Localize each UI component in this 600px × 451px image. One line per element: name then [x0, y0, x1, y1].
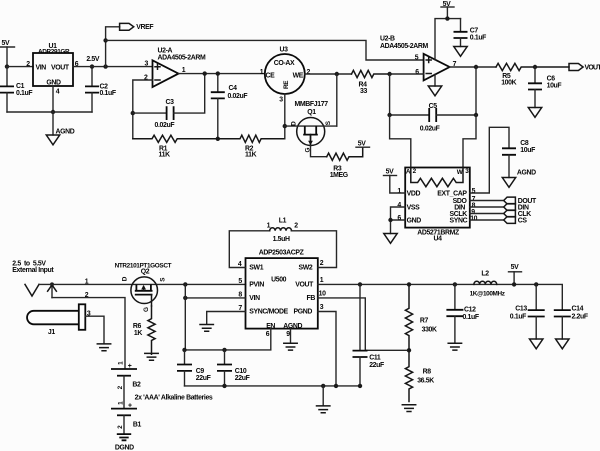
svg-text:1K: 1K	[134, 330, 142, 337]
svg-text:6: 6	[415, 69, 419, 76]
svg-text:1K@100MHz: 1K@100MHz	[470, 291, 505, 298]
wire U1 GND lead	[52, 86, 54, 112]
node VIN junction	[5, 64, 9, 68]
flag VREF	[120, 23, 154, 31]
svg-text:SW1: SW1	[249, 265, 263, 272]
ground under C6	[528, 108, 541, 118]
label external input	[12, 260, 54, 274]
node C5 left junction	[387, 113, 391, 117]
inductor L1 1.5uH	[229, 218, 336, 268]
svg-text:3: 3	[145, 60, 149, 67]
svg-text:VIN: VIN	[36, 64, 47, 71]
svg-text:22uF: 22uF	[196, 375, 211, 382]
svg-text:0.1uF: 0.1uF	[100, 90, 116, 97]
capacitor C13 0.1uF	[510, 284, 545, 339]
node C10 top junction	[222, 348, 226, 352]
ground under U2-B	[428, 86, 441, 96]
svg-text:2.2uF: 2.2uF	[572, 313, 588, 320]
capacitor C12 0.1uF	[446, 284, 478, 343]
svg-text:PVIN: PVIN	[249, 282, 264, 289]
svg-text:330K: 330K	[422, 326, 437, 333]
5V tick at L2	[509, 264, 522, 284]
svg-text:C12: C12	[464, 307, 476, 314]
svg-text:33: 33	[360, 88, 367, 95]
node C13 tap	[534, 282, 538, 286]
svg-text:0.02uF: 0.02uF	[155, 122, 175, 129]
wire jack pin1 rail to PVIN	[39, 283, 246, 285]
5V supply tick top-left	[0, 40, 15, 67]
node rail tap	[103, 38, 107, 42]
regulator U500 ADP2503ACPZ	[238, 250, 326, 338]
node C11 bottom junction	[358, 384, 362, 388]
resistor R6 1K	[133, 306, 155, 354]
svg-text:VOUT: VOUT	[585, 64, 600, 71]
svg-text:5: 5	[415, 55, 419, 62]
svg-text:C13: C13	[515, 306, 527, 313]
ground under C13	[530, 339, 543, 349]
node output-C4 junction	[216, 71, 220, 75]
node jack tip junction	[50, 282, 54, 286]
svg-text:1MEG: 1MEG	[330, 172, 348, 179]
resistor R8 36.5K	[405, 350, 434, 401]
svg-text:VOUT: VOUT	[51, 64, 70, 71]
svg-text:0.02uF: 0.02uF	[420, 126, 440, 133]
wire U3 WE to node	[305, 73, 352, 75]
svg-text:B1: B1	[133, 421, 142, 428]
svg-text:U3: U3	[280, 47, 289, 54]
internal resistor of U4	[411, 168, 463, 187]
svg-text:R8: R8	[423, 368, 432, 375]
svg-text:C10: C10	[235, 368, 247, 375]
svg-text:1: 1	[182, 67, 186, 74]
svg-text:CO-AX: CO-AX	[274, 60, 295, 67]
svg-text:C4: C4	[229, 85, 238, 92]
svg-text:0.02uF: 0.02uF	[228, 93, 248, 100]
wire PGND down	[318, 312, 336, 386]
inductor L2 ferrite bead	[470, 270, 505, 297]
transistor Q2 NTR2101PT1GOSCT	[115, 262, 172, 312]
regulator U1 ADR291GR	[26, 43, 79, 96]
node C4 bottom junction	[216, 137, 220, 141]
capacitor C5	[390, 67, 476, 133]
svg-text:1.5uH: 1.5uH	[273, 236, 290, 243]
ground under C14	[556, 339, 569, 349]
svg-text:2.5V: 2.5V	[86, 56, 100, 63]
svg-text:J1: J1	[48, 329, 55, 336]
resistor R4 33	[352, 70, 390, 95]
op-amp U2-A ADA4505-2ARM	[144, 48, 206, 87]
svg-text:L2: L2	[481, 270, 489, 277]
svg-text:1: 1	[397, 188, 401, 195]
node ground stem junction	[321, 384, 325, 388]
svg-text:PGND: PGND	[294, 309, 313, 316]
svg-text:DGND: DGND	[115, 444, 134, 451]
wire SCLK to flag	[470, 213, 504, 215]
digital pot U4 AD5271BRMZ	[397, 168, 477, 243]
svg-text:0.1uF: 0.1uF	[470, 35, 486, 42]
svg-text:VREF: VREF	[136, 24, 153, 31]
svg-text:4: 4	[56, 89, 60, 96]
svg-text:D: D	[122, 276, 129, 281]
svg-text:11K: 11K	[245, 152, 257, 159]
flag DIN	[504, 204, 529, 212]
ground under U4	[384, 234, 397, 244]
connector J1 barrel jack	[25, 279, 91, 337]
wire EXT_CAP to C8	[470, 127, 509, 193]
wire input cap branch	[184, 284, 186, 350]
svg-text:5V: 5V	[2, 40, 10, 47]
svg-text:36.5K: 36.5K	[417, 377, 434, 384]
svg-text:4: 4	[397, 202, 401, 209]
wire jack pin2 to battery	[52, 298, 125, 369]
svg-text:2: 2	[307, 69, 311, 76]
svg-text:U500: U500	[271, 277, 287, 284]
node VIN junction	[183, 296, 187, 300]
svg-text:1: 1	[118, 361, 125, 365]
resistor R2 11K	[196, 135, 284, 158]
wire VSS-GND link	[391, 207, 406, 234]
svg-text:0.1uF: 0.1uF	[16, 90, 32, 97]
node WE junction	[335, 72, 339, 76]
node GND junction	[51, 110, 55, 114]
svg-text:1: 1	[320, 277, 324, 284]
svg-text:6: 6	[266, 331, 270, 338]
node Q1 gate tap	[283, 124, 287, 128]
svg-text:+: +	[128, 403, 132, 410]
capacitor C8	[502, 140, 535, 177]
svg-text:1: 1	[260, 69, 264, 76]
wire analog ground rail	[7, 111, 92, 113]
svg-text:100K: 100K	[501, 79, 516, 86]
ground at U500 AGND	[284, 343, 297, 350]
svg-text:C6: C6	[547, 75, 556, 82]
5V tick at U4 VDD	[384, 168, 406, 193]
wire VIN rail	[7, 66, 33, 68]
node C5 right junction	[474, 113, 478, 117]
wire SYNC to flag	[470, 219, 504, 221]
ground under C7	[454, 47, 467, 57]
flag CS	[504, 217, 528, 225]
wire U2-B output	[450, 66, 496, 68]
wire Q1 source up to WE node	[336, 74, 338, 126]
flag VOUT	[569, 64, 600, 72]
transistor Q1 MMBFJ177	[285, 101, 337, 153]
svg-text:SYNC: SYNC	[450, 217, 468, 224]
svg-text:VOUT: VOUT	[295, 282, 314, 289]
svg-text:5V: 5V	[386, 168, 394, 175]
svg-text:10uF: 10uF	[547, 83, 562, 90]
ground under rail	[317, 406, 330, 413]
node C3 left junction	[131, 111, 135, 115]
node PVIN junction	[183, 282, 187, 286]
svg-text:5V: 5V	[511, 264, 519, 271]
node VSS-GND junction	[388, 218, 392, 222]
svg-text:+: +	[128, 363, 132, 370]
svg-text:2: 2	[117, 425, 124, 429]
svg-text:C8: C8	[520, 140, 529, 147]
svg-text:10uF: 10uF	[520, 147, 535, 154]
svg-text:VIN: VIN	[249, 295, 260, 302]
wire pin2 loop	[133, 80, 153, 139]
svg-text:Q1: Q1	[307, 109, 316, 116]
capacitor C14 2.2uF	[554, 306, 588, 339]
5V tick U2-B	[441, 1, 454, 18]
node 5V junction	[445, 16, 449, 20]
svg-text:22uF: 22uF	[235, 375, 250, 382]
capacitor C11 22uF	[353, 284, 385, 386]
5V tick at R3	[356, 141, 370, 148]
node C10 bottom junction	[222, 384, 226, 388]
svg-text:SYNC/MODE: SYNC/MODE	[249, 309, 288, 316]
capacitor C10 22uF	[217, 350, 250, 386]
svg-text:2: 2	[413, 168, 417, 175]
wire VIN tap	[185, 297, 245, 299]
svg-text:ADA4505-2ARM: ADA4505-2ARM	[380, 43, 428, 50]
node output feedback tap	[474, 65, 478, 69]
resistor R1 11K	[133, 135, 196, 158]
ground under R8	[402, 405, 415, 412]
svg-text:WE: WE	[293, 72, 304, 79]
svg-text:10: 10	[319, 290, 326, 297]
wire C5 right down to U4 pin W	[463, 115, 476, 168]
svg-text:5: 5	[472, 188, 476, 195]
svg-text:2: 2	[117, 385, 124, 389]
wire SYNC/MODE to ground	[207, 312, 246, 325]
svg-text:VDD: VDD	[407, 190, 421, 197]
node PGND junction	[334, 384, 338, 388]
svg-text:S: S	[325, 120, 332, 125]
svg-text:C5: C5	[429, 103, 438, 110]
svg-text:22uF: 22uF	[369, 362, 384, 369]
capacitor C3	[133, 74, 205, 129]
svg-text:Q2: Q2	[141, 268, 150, 275]
capacitor C6	[528, 67, 561, 108]
svg-text:L1: L1	[279, 218, 287, 225]
wire AGND lead U500	[290, 329, 292, 344]
svg-text:10: 10	[470, 215, 477, 222]
node C11 top tap	[358, 282, 362, 286]
svg-text:R7: R7	[420, 317, 429, 324]
sensor U3 CO-AX cell	[260, 47, 311, 104]
flag CLK	[504, 210, 532, 218]
svg-text:ADR291GR: ADR291GR	[38, 49, 70, 56]
svg-text:AGND: AGND	[283, 323, 302, 330]
node FB-R7-R8 junction	[407, 348, 411, 352]
wire FB path	[318, 298, 409, 350]
svg-text:3: 3	[320, 304, 324, 311]
svg-text:5: 5	[238, 278, 242, 285]
node pin6 junction	[387, 72, 391, 76]
svg-text:2x 'AAA' Alkaline Batteries: 2x 'AAA' Alkaline Batteries	[135, 394, 213, 401]
flag DOUT	[504, 197, 537, 205]
svg-text:11K: 11K	[159, 152, 171, 159]
svg-text:C3: C3	[166, 99, 175, 106]
resistor R3 1MEG	[327, 147, 363, 179]
svg-text:C14: C14	[572, 306, 584, 313]
node output-C3 junction	[203, 71, 207, 75]
wire EN to C9 rail	[185, 329, 271, 350]
svg-text:RE: RE	[283, 80, 290, 89]
battery B2	[111, 361, 141, 409]
capacitor C4	[211, 74, 248, 139]
svg-text:3: 3	[465, 168, 469, 175]
ground DGND	[115, 434, 134, 451]
svg-text:GND: GND	[407, 217, 422, 224]
wire VOUT rail	[318, 284, 563, 310]
op-amp U2-B ADA4505-2ARM	[380, 36, 457, 81]
svg-text:6: 6	[397, 215, 401, 222]
node R7 top tap	[407, 282, 411, 286]
wire Q1 gate to R3	[311, 146, 327, 157]
ground AGND under C8	[502, 170, 536, 188]
ground at SYNC/MODE	[200, 325, 213, 332]
ground under J1	[97, 344, 110, 351]
wire top rail to U2-B	[106, 40, 424, 60]
svg-text:D: D	[291, 121, 298, 126]
svg-text:FB: FB	[307, 295, 316, 302]
capacitor C7	[454, 19, 487, 47]
resistor R5 100K	[496, 63, 569, 86]
svg-text:ADA4505-2ARM: ADA4505-2ARM	[158, 54, 206, 61]
wire VREF stem	[106, 27, 120, 67]
ground under R6	[145, 353, 158, 360]
svg-text:S: S	[159, 277, 166, 282]
node C9 top junction	[182, 348, 186, 352]
wire U3 RE down	[284, 94, 286, 139]
node 5V junction	[512, 282, 516, 286]
wire jack pin3 to ground	[85, 316, 104, 344]
svg-text:2: 2	[26, 61, 30, 68]
svg-text:2: 2	[320, 260, 324, 267]
wire SDO to flag	[470, 200, 504, 202]
wire pin6 from R4	[390, 73, 424, 75]
svg-text:0.1uF: 0.1uF	[463, 314, 479, 321]
wire 2.5V rail	[73, 66, 153, 68]
svg-text:3: 3	[279, 96, 283, 103]
ground under C12	[448, 343, 461, 350]
node VREF tap	[103, 64, 107, 68]
node C6 tap	[533, 65, 537, 69]
wire U2-A output net	[179, 73, 265, 75]
svg-text:9: 9	[286, 331, 290, 338]
wire C5 left down to U4 pin A	[390, 115, 411, 168]
wire power ground rail	[185, 385, 361, 387]
svg-text:GND: GND	[46, 80, 61, 87]
svg-text:0.1uF: 0.1uF	[510, 313, 526, 320]
svg-text:EXT_CAP: EXT_CAP	[437, 190, 467, 197]
svg-text:External Input: External Input	[12, 267, 54, 274]
svg-text:CS: CS	[518, 217, 528, 224]
svg-text:SW2: SW2	[299, 265, 313, 272]
wire DIN to flag	[470, 206, 504, 208]
svg-text:AGND: AGND	[56, 129, 75, 136]
wire ground stem	[322, 386, 324, 406]
svg-text:2: 2	[294, 222, 298, 229]
svg-text:U2-B: U2-B	[380, 36, 395, 43]
svg-text:U4: U4	[434, 236, 443, 243]
svg-text:C11: C11	[369, 354, 381, 361]
resistor R7 330K	[405, 284, 437, 349]
capacitor C9 22uF	[177, 350, 211, 386]
node C12 tap	[453, 282, 457, 286]
svg-text:ADP2503ACPZ: ADP2503ACPZ	[259, 250, 305, 257]
wire U2-B V- down	[434, 74, 436, 86]
node C2 top junction	[90, 64, 94, 68]
svg-text:AGND: AGND	[517, 170, 536, 177]
capacitor C2	[85, 67, 116, 112]
svg-text:1: 1	[267, 222, 271, 229]
svg-text:G: G	[143, 307, 150, 312]
svg-text:5V: 5V	[358, 141, 366, 148]
wire U2-B V+ supply	[435, 19, 461, 60]
svg-text:VSS: VSS	[407, 204, 420, 211]
battery B1	[111, 401, 142, 434]
svg-text:C9: C9	[196, 368, 205, 375]
capacitor C1	[0, 67, 32, 112]
svg-text:MMBFJ177: MMBFJ177	[295, 101, 329, 108]
ground AGND under U1	[46, 112, 74, 145]
wire 5V down to VIN	[6, 47, 8, 67]
svg-text:CE: CE	[266, 72, 276, 79]
svg-text:B2: B2	[132, 381, 141, 388]
